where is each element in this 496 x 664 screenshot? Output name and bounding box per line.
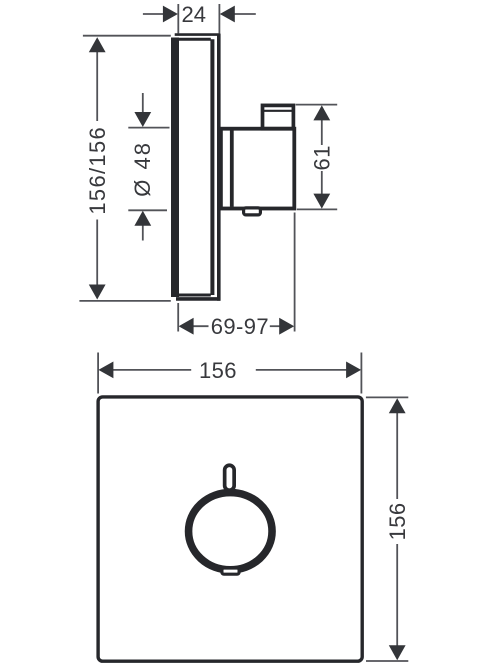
arrow down (313, 194, 330, 209)
arrow left (98, 362, 113, 379)
cartridge collar line (230, 130, 234, 207)
svg-text:Ø 48: Ø 48 (130, 141, 155, 197)
dim tail above (142, 93, 144, 114)
extension line top (128, 127, 169, 129)
dim line upper segment (396, 412, 398, 499)
extension line top (83, 35, 171, 37)
arrow up (389, 398, 406, 413)
escutcheon plate outer bottom cap (176, 297, 220, 301)
dim line upper segment (321, 120, 323, 145)
valve cartridge body (side view) (221, 129, 294, 209)
dim tail below (142, 225, 144, 241)
extension line left of 24 (177, 4, 179, 34)
24 right arrow (220, 6, 235, 23)
24 right tail line (235, 13, 256, 15)
extension line top (296, 104, 338, 106)
extension line left (97, 353, 99, 394)
extension line right (294, 213, 296, 332)
escutcheon plate front view (square) (98, 397, 362, 661)
dim line lower segment (96, 220, 98, 287)
svg-text:156/156: 156/156 (85, 126, 110, 215)
arrow up (89, 37, 106, 52)
extension line bottom (128, 209, 167, 211)
dimension diameter 48 (knob) (128, 93, 169, 241)
temperature marker pin on knob (225, 465, 235, 490)
arrow right (279, 318, 294, 335)
extension line top (366, 396, 408, 398)
dimension 156 (front width, top) (98, 353, 361, 394)
knob bottom index bar (222, 568, 239, 574)
dimension 156 (front height, right) (366, 397, 410, 661)
arrow down to top of knob (134, 112, 151, 127)
escutcheon plate inner right line (210, 39, 214, 295)
extension line bottom (79, 300, 170, 302)
extension line left (177, 303, 179, 332)
dimension 61 (cartridge height, right) (296, 105, 338, 210)
extension line bottom (297, 208, 337, 210)
svg-text:24: 24 (182, 2, 206, 27)
escutcheon plate outer top cap (175, 33, 221, 36)
arrow left (179, 318, 194, 335)
dim line lower segment (396, 544, 398, 646)
knob ring (front view) (189, 493, 272, 570)
dim line upper segment (96, 51, 98, 121)
arrow up to bottom of knob (134, 211, 151, 226)
handle grip block (side view) (263, 105, 294, 128)
escutcheon plate front face band (side view) (171, 38, 179, 298)
dim line right segment (256, 369, 347, 371)
escutcheon plate outer right line (217, 34, 221, 301)
dimension 24 (plate depth) (143, 2, 256, 34)
arrow up (313, 105, 330, 120)
24 left tail line (143, 13, 164, 15)
svg-text:69-97: 69-97 (211, 314, 269, 339)
extension line bottom (366, 660, 408, 662)
extension line right (360, 353, 362, 394)
dim line right segment (270, 325, 281, 327)
arrow right (346, 362, 361, 379)
dim line left segment (192, 325, 208, 327)
svg-text:156: 156 (385, 502, 410, 540)
svg-text:156: 156 (199, 358, 237, 383)
locking tab below cartridge (side view) (244, 208, 261, 215)
extension line right of 24 (218, 4, 220, 34)
dimension 69-97 (installation depth) (178, 213, 294, 340)
arrow down (89, 285, 106, 300)
escutcheon plate inner top cap (177, 38, 211, 41)
handle grip inner line (261, 110, 295, 112)
dimension 156/156 (plate height, left) (79, 36, 170, 301)
dim line lower segment (321, 171, 323, 195)
24 left arrow (163, 6, 178, 23)
svg-text:61: 61 (309, 145, 334, 170)
arrow down (389, 645, 406, 660)
escutcheon plate inner bottom cap (177, 294, 211, 297)
dim line left segment (112, 369, 191, 371)
